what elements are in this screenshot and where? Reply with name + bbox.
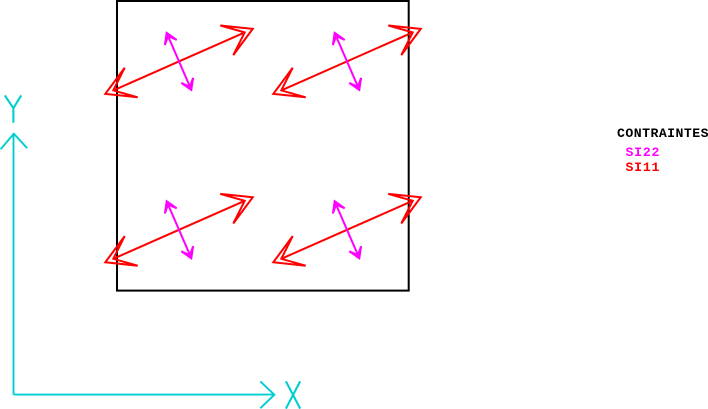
svg-text:SI11: SI11 (626, 160, 661, 175)
Y axis label glyph (5, 95, 21, 122)
SI22 magenta principal-stress double arrow, group G4 (333, 201, 361, 258)
coordinate axes (cyan) (1, 95, 301, 408)
svg-text:SI22: SI22 (626, 145, 661, 160)
arrow pair group G1 at Gauss point 1 (105, 26, 252, 98)
X axis arrowhead (260, 381, 274, 408)
SI11 red principal-stress double arrow, group G4 (273, 194, 420, 266)
SI11 red principal-stress double arrow, group G2 (273, 26, 420, 98)
SI22 magenta principal-stress double arrow, group G2 (333, 33, 361, 90)
arrow pair group G4 at Gauss point 4 (273, 194, 420, 266)
SI11 red principal-stress double arrow, group G1 (105, 26, 252, 98)
arrow pair group G3 at Gauss point 3 (105, 194, 252, 266)
SI11 red principal-stress double arrow, group G3 (105, 194, 252, 266)
SI22 magenta principal-stress double arrow, group G3 (165, 201, 193, 258)
Y axis arrowhead (1, 134, 28, 150)
SI22 magenta principal-stress double arrow, group G1 (165, 33, 193, 90)
arrow pair group G2 at Gauss point 2 (273, 26, 420, 98)
Y axis line (13, 134, 15, 394)
X axis label glyph (286, 381, 300, 408)
square element outline (mesh boundary) (117, 1, 409, 291)
svg-text:CONTRAINTES: CONTRAINTES (617, 126, 708, 141)
X axis line (14, 394, 275, 396)
